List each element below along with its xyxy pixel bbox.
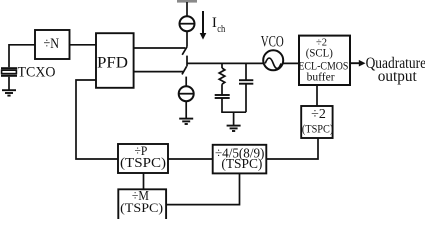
ground TCXO: [2, 90, 16, 95]
wire current source 2 to ground: [185, 101, 187, 118]
svg-text:(TSPC): (TSPC): [120, 200, 163, 215]
wire divider N to PFD: [70, 44, 97, 46]
current source I1 (top): [180, 16, 195, 31]
wire loop filter bottom junction: [221, 111, 246, 113]
wire divider 2 to prescaler: [266, 138, 318, 159]
divider P box U6: [118, 144, 168, 173]
svg-text:PFD: PFD: [97, 55, 128, 72]
wire capacitor C1 to junction: [221, 98, 223, 112]
svg-text:VCO: VCO: [261, 33, 284, 50]
wire resistor R1 to capacitor C1: [221, 84, 223, 95]
wire switch S2 to current source 2: [185, 77, 187, 87]
svg-text:(TSPC): (TSPC): [302, 122, 334, 136]
svg-text:÷N: ÷N: [44, 36, 60, 52]
divider 2 TSPC box U4: [301, 106, 332, 138]
wire current source 1 to switch S1: [186, 31, 188, 47]
capacitor C2: [239, 80, 253, 84]
svg-text:÷2: ÷2: [311, 107, 326, 122]
capacitor C1: [215, 95, 230, 98]
wire TCXO top to divider N: [9, 45, 35, 67]
wire prescaler to divider P: [168, 158, 213, 160]
resistor R1: [219, 68, 225, 84]
oscillator VCO symbol: [263, 50, 283, 70]
PFD box U2: [96, 33, 134, 88]
wire PFD down output to switch S2: [134, 71, 184, 73]
buffer box U3: [299, 36, 350, 85]
wire divider P to divider M: [143, 173, 145, 189]
svg-text:TCXO: TCXO: [18, 64, 56, 80]
svg-text:(TSPC): (TSPC): [221, 156, 262, 171]
svg-text:output: output: [378, 68, 418, 85]
wire TCXO bottom to ground: [8, 77, 10, 90]
ground loop filter: [227, 126, 241, 131]
svg-text:I: I: [212, 15, 217, 31]
node charge pump output segment: [186, 56, 188, 67]
wire junction to filter ground: [233, 112, 235, 125]
svg-text:(SCL): (SCL): [306, 48, 333, 60]
divider N box U1: [35, 30, 70, 59]
switch S2 blade: [182, 66, 187, 74]
wire VDD to current source 1: [186, 2, 188, 16]
wire buffer to divider 2 TSPC: [316, 85, 318, 106]
svg-text:buffer: buffer: [307, 72, 335, 84]
wire divider M to prescaler: [166, 173, 239, 204]
wire feedback from divider P to PFD: [76, 80, 118, 159]
prescaler box U5: [213, 145, 267, 174]
current source I2 (bottom): [179, 86, 194, 101]
wire loop filter branch 1 down: [221, 63, 223, 68]
wire PFD up output to switch S1: [134, 47, 186, 49]
wire charge pump output to VCO: [187, 62, 264, 64]
ground charge pump: [179, 119, 193, 124]
svg-text:ch: ch: [217, 24, 226, 35]
svg-text:(TSPC): (TSPC): [120, 156, 166, 171]
power rail VDD: [177, 0, 197, 3]
arrow buffer output: [350, 60, 366, 67]
wire loop filter branch 2 down: [245, 63, 247, 80]
arrow Ich: [200, 11, 207, 40]
wire capacitor C2 to junction: [245, 84, 247, 113]
switch S1 blade: [182, 47, 187, 55]
wire VCO to buffer: [283, 62, 299, 64]
crystal X1 (TCXO): [1, 67, 17, 77]
divider M box U7: [118, 189, 166, 220]
